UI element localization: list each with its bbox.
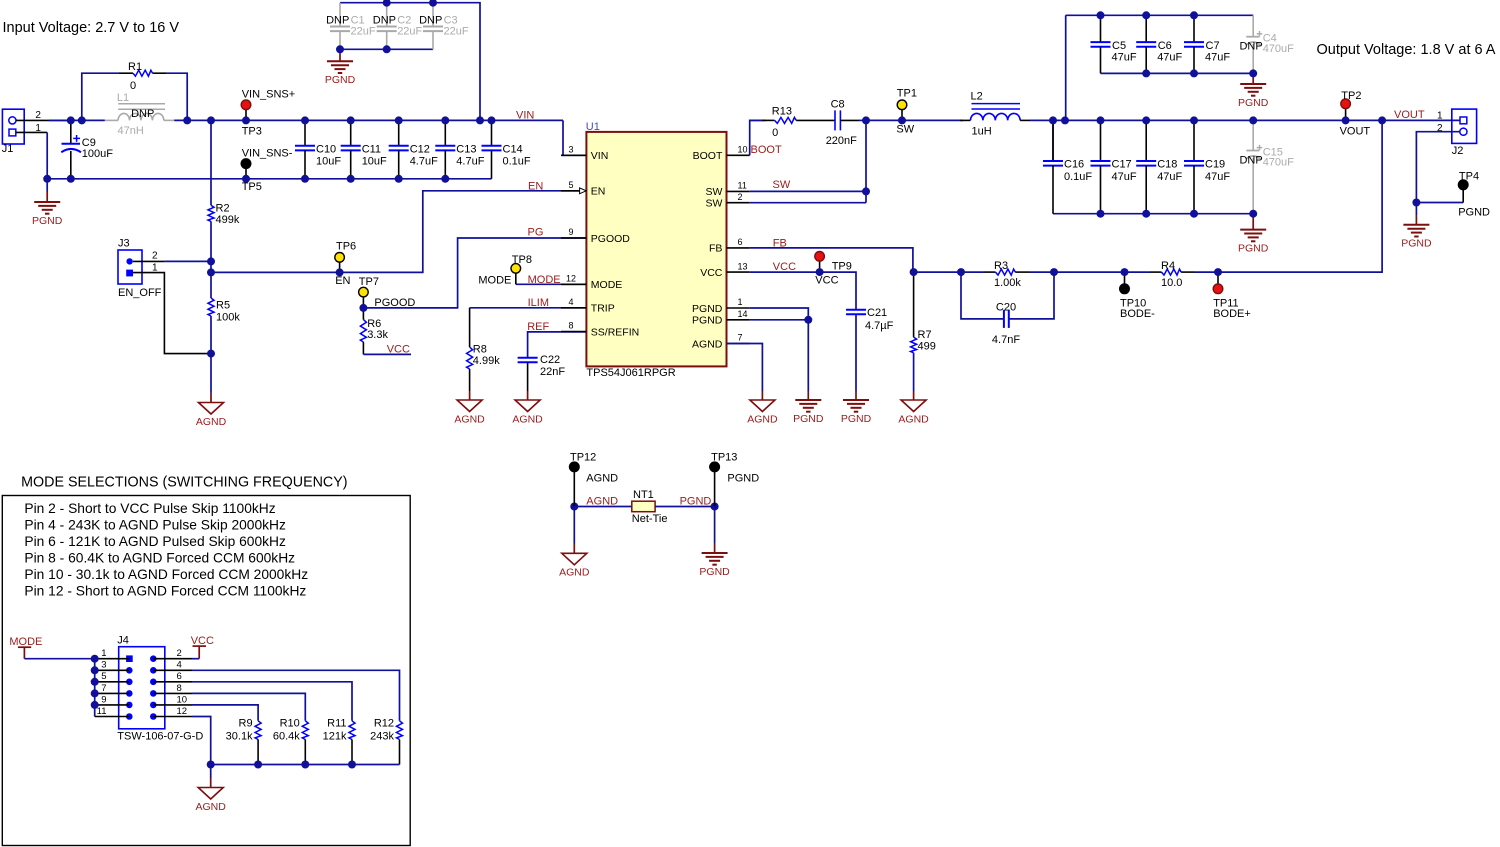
wire ILIM net to U1 pin 4	[470, 307, 587, 309]
wire J4 pin10 to R9	[192, 705, 258, 721]
power symbol PGND under C21	[855, 391, 857, 400]
svg-text:Net-Tie: Net-Tie	[632, 513, 668, 525]
svg-text:C13: C13	[456, 143, 476, 155]
capacitor C5 47uF	[1091, 15, 1137, 73]
svg-text:TP13: TP13	[711, 451, 737, 463]
wire J4 pin4 to R12	[192, 670, 400, 721]
wire REF net to U1 pin 8	[528, 332, 587, 358]
svg-text:4.7nF: 4.7nF	[992, 334, 1020, 346]
wire BOOT to R13	[750, 120, 766, 155]
svg-text:PGND: PGND	[325, 74, 356, 86]
svg-text:TRIP: TRIP	[591, 303, 615, 315]
svg-text:1uH: 1uH	[972, 126, 992, 138]
svg-text:J2: J2	[1452, 145, 1464, 157]
svg-text:3.3k: 3.3k	[367, 329, 388, 341]
wire C16 riser	[1052, 120, 1054, 161]
svg-text:22uF: 22uF	[444, 26, 469, 38]
svg-text:PGOOD: PGOOD	[591, 233, 631, 245]
capacitor C14 0.1uF	[482, 120, 531, 178]
svg-text:0.1uF: 0.1uF	[1064, 171, 1092, 183]
svg-text:TP1: TP1	[897, 88, 917, 100]
svg-text:R1: R1	[128, 61, 142, 73]
svg-text:DNP: DNP	[373, 14, 396, 26]
U1 pin 1 PGND	[692, 297, 750, 315]
svg-text:Pin 6 - 121K to AGND Pulsed Sk: Pin 6 - 121K to AGND Pulsed Skip 600kHz	[24, 534, 286, 549]
svg-text:AGND: AGND	[512, 413, 543, 425]
svg-text:AGND: AGND	[692, 338, 723, 350]
svg-text:47uF: 47uF	[1112, 171, 1137, 183]
U1 pin 9 PGOOD	[561, 227, 630, 245]
test point TP10 BODE-	[1120, 272, 1155, 320]
svg-text:PGND: PGND	[32, 215, 63, 227]
svg-text:C11: C11	[362, 143, 381, 155]
svg-text:1: 1	[152, 262, 158, 273]
svg-text:47uF: 47uF	[1205, 52, 1230, 64]
svg-text:PGND: PGND	[692, 303, 723, 315]
capacitor C6 47uF	[1136, 15, 1182, 73]
svg-text:22uF: 22uF	[351, 26, 376, 38]
capacitor C4 DNP 470uF polarized	[1239, 15, 1294, 73]
svg-text:DNP: DNP	[1239, 40, 1262, 52]
svg-text:TP5: TP5	[242, 181, 262, 193]
capacitor C11 10uF	[341, 120, 387, 178]
capacitor C18 47uF	[1136, 120, 1182, 213]
svg-text:60.4k: 60.4k	[273, 730, 300, 742]
wire J1 ground stem	[46, 179, 48, 192]
test point TP2 VOUT	[1340, 90, 1371, 138]
resistor R6 3.3k	[360, 308, 388, 355]
inductor L1 DNP	[105, 92, 174, 137]
svg-text:SS/REFIN: SS/REFIN	[591, 326, 639, 338]
svg-text:REF: REF	[527, 321, 549, 333]
wire J4 AGND rail	[211, 764, 400, 766]
svg-text:1.00k: 1.00k	[994, 277, 1021, 289]
svg-text:12: 12	[177, 706, 188, 717]
wire SW to L2	[866, 119, 963, 121]
svg-text:100k: 100k	[216, 312, 240, 324]
U1 pin 4 TRIP	[561, 297, 615, 315]
wire FB divider line	[914, 271, 961, 273]
svg-text:ILIM: ILIM	[528, 297, 549, 309]
svg-text:DNP: DNP	[131, 108, 154, 120]
svg-text:22uF: 22uF	[397, 26, 422, 38]
svg-text:47uF: 47uF	[1205, 171, 1230, 183]
svg-text:C14: C14	[503, 143, 523, 155]
svg-text:C12: C12	[410, 143, 430, 155]
capacitor C10 10uF	[295, 120, 341, 178]
svg-text:PGND: PGND	[699, 566, 730, 578]
wire bottom bank rail	[1053, 213, 1253, 215]
svg-text:R8: R8	[473, 344, 487, 356]
svg-text:3: 3	[101, 660, 106, 671]
resistor R4 10.0	[1125, 260, 1219, 289]
svg-text:AGND: AGND	[196, 416, 227, 428]
capacitor C7 47uF	[1184, 15, 1230, 73]
test point TP6 EN	[335, 240, 356, 286]
U1 pin 3 VIN	[561, 145, 608, 163]
wire R1 branch loop	[82, 73, 119, 120]
wire top bank top rail	[1066, 14, 1254, 16]
U1 pin 6 FB	[709, 237, 750, 255]
wire EN net to U1 pin 5	[211, 191, 580, 273]
capacitor C22 22nF	[518, 354, 566, 391]
svg-text:PGND: PGND	[793, 413, 824, 425]
wire C1-C3 top rail to VIN	[340, 3, 480, 121]
svg-text:AGND: AGND	[747, 413, 778, 425]
svg-text:TP8: TP8	[512, 254, 532, 266]
wire FB from U1 pin 6	[750, 248, 913, 272]
svg-text:4.7µF: 4.7µF	[865, 320, 894, 332]
svg-text:MODE: MODE	[591, 279, 623, 291]
port MODE at J4	[9, 636, 42, 659]
net tie NT1	[632, 489, 668, 525]
svg-text:PGND: PGND	[1458, 206, 1490, 218]
svg-text:C8: C8	[831, 99, 845, 111]
svg-text:C1: C1	[351, 14, 365, 26]
junction dots J4	[91, 655, 356, 769]
svg-text:PGND: PGND	[1401, 238, 1432, 250]
svg-text:FB: FB	[773, 237, 787, 249]
wire J1 pin1 to PGND rail	[16, 131, 47, 133]
svg-text:VIN_SNS+: VIN_SNS+	[242, 89, 296, 101]
svg-text:C19: C19	[1205, 159, 1225, 171]
wire J3 pin2 to EN divider	[133, 260, 165, 262]
resistor R5 100k	[208, 298, 240, 324]
svg-text:Input Voltage: 2.7 V to 16 V: Input Voltage: 2.7 V to 16 V	[3, 20, 180, 36]
svg-text:0: 0	[772, 127, 778, 139]
wire C20 loop	[961, 272, 1004, 319]
svg-text:SW: SW	[705, 186, 722, 198]
wire FB line to R4	[1054, 271, 1125, 273]
svg-text:MODE SELECTIONS (SWITCHING FRE: MODE SELECTIONS (SWITCHING FREQUENCY)	[21, 474, 347, 490]
svg-text:7: 7	[101, 683, 106, 694]
svg-text:C22: C22	[540, 354, 560, 366]
capacitor C15 DNP 470uF polarized	[1239, 120, 1294, 213]
svg-text:499k: 499k	[216, 214, 240, 226]
power symbol PGND under U1 PGND pins	[807, 391, 809, 400]
svg-text:499: 499	[918, 341, 936, 353]
wire PGOOD net to U1 pin 9	[363, 238, 586, 308]
svg-text:47uF: 47uF	[1157, 171, 1182, 183]
U1 pin 7 AGND	[692, 333, 750, 351]
U1 pin 5 EN	[561, 180, 605, 198]
wire U1 AGND pin to ground	[727, 344, 763, 392]
wire top bank bottom rail	[1101, 72, 1254, 74]
svg-text:C17: C17	[1112, 159, 1132, 171]
capacitor C20 4.7nF	[992, 301, 1020, 346]
wire EN divider vertical	[210, 120, 212, 205]
wire MODE to J4 pin 1	[24, 658, 94, 660]
svg-text:4.99k: 4.99k	[473, 355, 500, 367]
svg-text:10.0: 10.0	[1161, 277, 1182, 289]
wire to AGND under J4	[210, 765, 212, 779]
wire R5 to AGND	[210, 354, 212, 393]
svg-text:470uF: 470uF	[1263, 43, 1294, 55]
resistor R7 499	[911, 272, 936, 391]
svg-text:14: 14	[738, 309, 748, 319]
svg-text:BOOT: BOOT	[751, 144, 782, 156]
svg-text:Pin 8 - 60.4K to AGND Forced C: Pin 8 - 60.4K to AGND Forced CCM 600kHz	[24, 550, 295, 565]
svg-text:1: 1	[1437, 110, 1443, 121]
wire MODE net to U1 pin 12	[516, 283, 587, 285]
svg-text:TP4: TP4	[1459, 171, 1479, 183]
wire R6 to VCC stub	[363, 353, 411, 355]
svg-text:C10: C10	[316, 143, 336, 155]
svg-text:9: 9	[101, 694, 106, 705]
wire VOUT main line	[1030, 119, 1460, 121]
wire J4 pin12 to AGND rail	[192, 717, 211, 765]
test point TP9 VCC	[815, 251, 852, 286]
connector J4 TSW-106-07-G-D	[95, 634, 204, 742]
wire VIN main line right	[174, 119, 563, 121]
svg-text:30.1k: 30.1k	[226, 730, 253, 742]
svg-text:6: 6	[738, 237, 743, 247]
svg-text:R2: R2	[216, 203, 230, 215]
svg-text:10uF: 10uF	[362, 156, 387, 168]
wire VIN main line left	[49, 119, 105, 121]
svg-text:VCC: VCC	[773, 261, 796, 273]
capacitor C17 47uF	[1091, 120, 1137, 213]
capacitor C8 220nF	[826, 99, 857, 147]
svg-text:SW: SW	[705, 198, 722, 210]
test point TP5 VIN_SNS-	[241, 148, 293, 193]
power symbol PGND under J1	[46, 192, 48, 203]
svg-text:FB: FB	[709, 243, 722, 255]
svg-text:C21: C21	[867, 307, 887, 319]
U1 pin 8 SS/REFIN	[561, 321, 639, 339]
svg-text:4.7uF: 4.7uF	[456, 156, 484, 168]
svg-text:PG: PG	[528, 226, 544, 238]
connector J2	[1437, 109, 1477, 157]
U1 pin 2 SW	[705, 192, 749, 210]
svg-text:47uF: 47uF	[1157, 52, 1182, 64]
svg-text:5: 5	[101, 671, 106, 682]
svg-text:VOUT: VOUT	[1394, 109, 1425, 121]
test point TP3 VIN_SNS+	[241, 89, 295, 138]
svg-text:R12: R12	[374, 718, 394, 730]
wire J4 pin8 to R10	[192, 693, 305, 720]
wire J2 pin2 to PGND	[1416, 132, 1459, 203]
wire J3 pin1 to AGND node	[133, 273, 211, 354]
power symbol PGND under C1	[339, 49, 341, 61]
svg-text:AGND: AGND	[196, 801, 227, 813]
svg-text:U1: U1	[586, 121, 600, 133]
svg-text:2: 2	[152, 250, 158, 261]
svg-text:VCC: VCC	[815, 274, 838, 286]
svg-text:TPS54J061RPGR: TPS54J061RPGR	[586, 367, 675, 379]
op-amp U1 TPS54J061RPGR body	[586, 121, 727, 379]
resistor R10 60.4k	[273, 718, 308, 765]
wire J4 pin2 to VCC	[192, 658, 199, 660]
U1 pin 12 MODE	[561, 274, 622, 292]
test point TP11 BODE+	[1213, 272, 1251, 320]
svg-text:11: 11	[97, 706, 107, 717]
svg-text:J1: J1	[2, 143, 14, 155]
connector J3 EN_OFF	[118, 238, 162, 299]
svg-text:MODE: MODE	[478, 274, 511, 286]
svg-text:EN: EN	[591, 186, 606, 198]
wire top bank riser	[1065, 15, 1067, 120]
svg-text:C6: C6	[1158, 40, 1172, 52]
svg-text:TP12: TP12	[570, 451, 596, 463]
test point TP1 SW	[896, 88, 917, 136]
test point TP12 AGND	[570, 451, 619, 506]
svg-text:2: 2	[177, 648, 182, 659]
wire U1 PGND pin 14	[750, 319, 809, 321]
svg-text:1: 1	[738, 297, 743, 307]
svg-text:NT1: NT1	[633, 489, 654, 501]
svg-text:8: 8	[177, 683, 182, 694]
wire TP13 down	[714, 507, 716, 544]
svg-text:7: 7	[738, 333, 743, 343]
svg-text:R7: R7	[918, 329, 932, 341]
capacitor C16 0.1uF	[1043, 120, 1092, 213]
analog ground AGND under TP12	[573, 544, 575, 554]
svg-text:100uF: 100uF	[82, 148, 113, 160]
power symbol PGND under TP13	[714, 543, 716, 553]
svg-text:Pin 12 - Short to AGND Forced: Pin 12 - Short to AGND Forced CCM 1100kH…	[24, 583, 306, 598]
resistor R2 499k	[208, 203, 240, 227]
svg-text:VCC: VCC	[387, 344, 410, 356]
wire VIN to U1 pin 3	[563, 120, 586, 155]
svg-text:5: 5	[568, 180, 573, 190]
wire TP12 down	[573, 507, 575, 544]
svg-text:R13: R13	[772, 105, 792, 117]
svg-text:TP2: TP2	[1341, 90, 1361, 102]
svg-text:EN_OFF: EN_OFF	[118, 287, 162, 299]
wire input PGND rail	[47, 178, 491, 180]
svg-text:AGND: AGND	[454, 413, 485, 425]
svg-text:PGND: PGND	[680, 496, 712, 508]
capacitor C21 4.7uF	[846, 304, 894, 392]
svg-text:47uF: 47uF	[1112, 52, 1137, 64]
svg-text:R10: R10	[280, 718, 300, 730]
resistor R11 121k	[323, 718, 355, 765]
wire C8 to SW node	[840, 119, 859, 121]
U1 pin 13 VCC	[700, 261, 749, 279]
test point TP7 PGOOD	[359, 276, 416, 309]
inductor L2 1uH	[960, 91, 1030, 138]
wire J4 odd pins bus	[94, 659, 96, 717]
power symbol PGND under J2	[1415, 216, 1417, 225]
svg-text:DNP: DNP	[1239, 154, 1262, 166]
svg-text:2: 2	[738, 192, 743, 202]
svg-text:DNP: DNP	[326, 14, 349, 26]
test point TP13 PGND	[710, 451, 759, 506]
svg-text:PGND: PGND	[841, 413, 872, 425]
capacitor C3 DNP 22uF	[419, 3, 469, 50]
test point TP4 PGND	[1458, 171, 1490, 219]
resistor R12 243k	[370, 718, 402, 765]
wire C1-C3 bottom rail	[340, 48, 433, 50]
svg-text:8: 8	[568, 321, 573, 331]
svg-text:6: 6	[177, 671, 182, 682]
svg-text:2: 2	[35, 110, 41, 121]
analog ground AGND under C22	[527, 391, 529, 400]
wire J2 ground stem	[1415, 203, 1417, 216]
svg-text:13: 13	[738, 261, 748, 271]
svg-text:121k: 121k	[323, 730, 347, 742]
svg-text:R9: R9	[239, 718, 253, 730]
svg-text:SW: SW	[896, 123, 914, 135]
analog ground AGND under R7	[913, 391, 915, 400]
svg-text:220nF: 220nF	[826, 135, 857, 147]
wire J4 pin6 to R11	[192, 682, 352, 721]
svg-text:AGND: AGND	[586, 472, 618, 484]
wire FB sense from VOUT	[1218, 120, 1382, 272]
wire NT1 to PGND	[655, 506, 715, 508]
svg-text:DNP: DNP	[419, 14, 442, 26]
wire VCC from U1 pin 13	[750, 272, 856, 303]
resistor R3 1.00k	[961, 260, 1054, 289]
svg-text:C9: C9	[82, 137, 96, 149]
svg-text:MODE: MODE	[528, 274, 561, 286]
svg-text:VCC: VCC	[191, 635, 214, 647]
analog ground AGND under J4	[210, 778, 212, 788]
wire SW pin 11	[750, 190, 866, 192]
svg-text:R3: R3	[994, 260, 1008, 272]
svg-text:22nF: 22nF	[540, 366, 565, 378]
capacitor C1 DNP 22uF	[326, 3, 376, 50]
capacitor C2 DNP 22uF	[373, 3, 423, 50]
svg-text:AGND: AGND	[898, 413, 929, 425]
svg-text:BOOT: BOOT	[693, 150, 723, 162]
svg-text:12: 12	[566, 274, 576, 284]
svg-text:PGND: PGND	[727, 472, 759, 484]
svg-text:AGND: AGND	[559, 567, 590, 579]
power symbol PGND under C4	[1252, 73, 1254, 84]
svg-text:3: 3	[568, 145, 573, 155]
svg-text:1: 1	[101, 648, 106, 659]
svg-text:L1: L1	[117, 92, 129, 104]
svg-text:TP3: TP3	[242, 126, 262, 138]
svg-text:VIN: VIN	[516, 110, 534, 122]
wire SW vertical	[865, 120, 867, 202]
svg-text:Pin 10 - 30.1k to AGND Forced: Pin 10 - 30.1k to AGND Forced CCM 2000kH…	[24, 567, 308, 582]
wire AGND to NT1	[574, 506, 632, 508]
svg-text:C18: C18	[1157, 159, 1177, 171]
svg-text:TP7: TP7	[359, 276, 379, 288]
svg-text:TSW-106-07-G-D: TSW-106-07-G-D	[117, 730, 203, 742]
wire J1 pin2 to VIN node	[16, 119, 71, 121]
svg-text:AGND: AGND	[586, 496, 618, 508]
power symbol PGND under C15 rail	[1252, 214, 1254, 230]
svg-text:C5: C5	[1112, 40, 1126, 52]
svg-text:9: 9	[568, 227, 573, 237]
wire TP4 to PGND node	[1416, 202, 1463, 204]
svg-text:BODE+: BODE+	[1213, 308, 1251, 320]
resistor R13 0	[750, 105, 835, 139]
resistor R8 4.99k	[467, 344, 501, 391]
svg-text:J3: J3	[118, 238, 130, 250]
svg-text:SW: SW	[773, 179, 791, 191]
svg-text:4: 4	[177, 660, 182, 671]
svg-text:R5: R5	[216, 300, 230, 312]
svg-text:C16: C16	[1064, 159, 1084, 171]
U1 pin 11 SW	[705, 181, 749, 199]
resistor R9 30.1k	[226, 718, 261, 765]
svg-text:EN: EN	[335, 275, 350, 287]
svg-text:R11: R11	[327, 718, 346, 730]
svg-text:R4: R4	[1161, 260, 1175, 272]
svg-text:10uF: 10uF	[316, 156, 341, 168]
svg-text:470uF: 470uF	[1263, 157, 1294, 169]
svg-text:10: 10	[738, 145, 748, 155]
svg-text:4: 4	[568, 297, 573, 307]
U1 pin 10 BOOT	[693, 145, 750, 163]
svg-text:TP6: TP6	[336, 240, 356, 252]
svg-text:R6: R6	[367, 318, 381, 330]
